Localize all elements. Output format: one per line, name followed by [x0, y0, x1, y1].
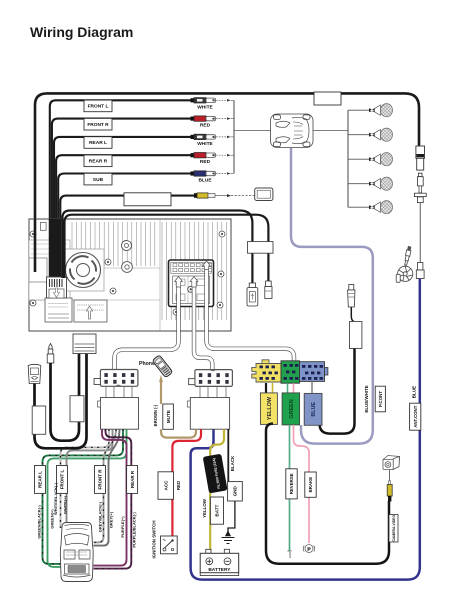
connector main harness socket (head unit rear): [169, 260, 214, 307]
wire bundle inside chassis: [35, 219, 60, 278]
wire gnd to chassis: [228, 501, 235, 533]
car (top view, horizontal): [271, 114, 314, 148]
svg-text:IGNITION SWITCH: IGNITION SWITCH: [152, 520, 157, 558]
node BRAKE: [305, 472, 316, 497]
svg-text:REAR R: REAR R: [89, 159, 108, 165]
speaker 1: [348, 104, 393, 117]
wire antenna lead (black, head unit to antenna jack): [35, 93, 419, 272]
connector AUX 3.5mm jack: [47, 344, 54, 364]
connector wire-bundle socket redraw: [47, 277, 67, 298]
wire stubs cluster to labels: [265, 383, 267, 393]
inline box on antenna lead: [314, 92, 341, 105]
connector 8-pin plug left: [94, 370, 138, 387]
svg-text:PURPLE(+): PURPLE(+): [120, 516, 125, 538]
svg-text:FRONT L: FRONT L: [60, 470, 65, 490]
connector block B (bottom of head unit): [74, 300, 107, 322]
svg-text:P.CONT: P.CONT: [378, 391, 383, 407]
svg-text:ANT.CONT: ANT.CONT: [413, 405, 418, 428]
wire USB cable 1: [62, 211, 252, 284]
wire camera video loop (black): [266, 424, 389, 564]
svg-text:GND: GND: [233, 486, 238, 497]
ferrite bead left: [32, 406, 46, 434]
svg-text:BRAKE: BRAKE: [308, 477, 313, 493]
camera: [383, 456, 400, 470]
wire harness lead to right interface connector (outlined): [194, 285, 212, 370]
connector remote plug: [348, 285, 355, 308]
svg-text:BATTERY: BATTERY: [208, 567, 231, 573]
node P.CONT: [375, 386, 385, 412]
node REVERSE: [286, 469, 297, 499]
connector RCA video plug (yellow): [194, 193, 255, 198]
ground symbol: [222, 532, 235, 544]
node speaker channel labels: [35, 466, 138, 494]
wire PURPLE rear-right pair: [93, 429, 126, 565]
svg-text:WHITE/BLACK(-): WHITE/BLACK(-): [53, 482, 58, 515]
inline adapter on remote lead: [350, 322, 362, 349]
connector antenna plug (male mast top): [414, 173, 426, 262]
svg-text:FRONT R: FRONT R: [98, 469, 103, 490]
speaker 3: [348, 153, 393, 166]
svg-text:REAR R: REAR R: [130, 470, 135, 488]
connector antenna barrel: [416, 263, 424, 279]
node RCA output labels: [84, 100, 171, 206]
svg-text:RED: RED: [176, 481, 181, 490]
wire harness lead to ISO cluster (outlined): [207, 268, 295, 361]
car (top view, vertical): [60, 523, 93, 582]
svg-text:BLUE: BLUE: [411, 386, 416, 399]
connector ISO cluster green section: [281, 361, 300, 383]
antenna motor (round base with spokes): [396, 246, 413, 282]
svg-text:BLUE: BLUE: [311, 402, 317, 417]
svg-text:FRONT R: FRONT R: [87, 122, 109, 128]
svg-text:SUB: SUB: [93, 177, 104, 183]
wire GREEN rear-left pair: [43, 429, 124, 564]
wire GREY front-right pair: [93, 429, 116, 542]
speaker 5: [348, 201, 393, 214]
wire USB cable 2: [65, 215, 269, 281]
svg-text:REVERSE: REVERSE: [289, 473, 294, 494]
wire harness lead to left interface connector (outlined): [115, 285, 179, 370]
wire WHITE front-left pair: [61, 429, 110, 528]
svg-text:MUTE: MUTE: [166, 410, 171, 423]
node GREEN lead box: [282, 393, 300, 425]
wire PINK brake: [294, 425, 310, 543]
svg-text:YELLOW: YELLOW: [267, 396, 273, 420]
node BLUE lead box: [304, 393, 322, 425]
svg-text:BLUE/WHITE: BLUE/WHITE: [364, 385, 369, 412]
connector ISO cluster blue section: [300, 362, 328, 382]
svg-text:FRONT L: FRONT L: [88, 104, 109, 110]
svg-text:CAMERA-VIDEO: CAMERA-VIDEO: [392, 515, 396, 542]
connector ISO cluster yellow section: [252, 360, 281, 382]
svg-text:BLUE: BLUE: [198, 178, 212, 184]
svg-text:WHITE(+): WHITE(+): [63, 495, 68, 514]
ignition switch: [161, 536, 178, 554]
wire speaker bus: [347, 110, 349, 207]
wire BLUE antenna control (navy): [191, 279, 420, 580]
arrows on harness leads: [175, 261, 211, 287]
svg-text:REAR L: REAR L: [38, 471, 43, 488]
interface box left (speaker harness): [98, 386, 139, 429]
ferrite on USB cables: [248, 242, 274, 254]
connector wire-bundle socket on head unit: [47, 277, 67, 298]
speaker 4: [348, 177, 393, 190]
wire P.CONT (blue/white, lavender): [291, 148, 373, 444]
battery: [200, 549, 239, 575]
svg-text:BROWN (-): BROWN (-): [153, 404, 158, 426]
connector camera RCA (yellow): [387, 470, 392, 502]
wire RCA summing bus: [233, 100, 235, 173]
wire GREEN reverse: [289, 425, 291, 551]
svg-text:BLACK: BLACK: [230, 455, 235, 471]
connector block A (bottom of head unit): [45, 298, 72, 322]
connector RCA plugs FRONT L/R REAR L/R SUB: [191, 98, 234, 184]
svg-text:GREEN: GREEN: [289, 399, 295, 418]
svg-text:GREEN/BLACK(-): GREEN/BLACK(-): [37, 505, 42, 539]
svg-text:GND: GND: [288, 552, 292, 558]
connector antenna jack (female): [416, 146, 425, 170]
wire BROWN mute: [160, 382, 162, 405]
svg-text:WHITE: WHITE: [197, 104, 213, 110]
svg-text:ACC: ACC: [163, 480, 168, 491]
fan: [62, 249, 104, 291]
head unit chassis (rear view): [29, 219, 231, 331]
svg-text:P: P: [307, 546, 310, 551]
ferrite bead right: [70, 396, 84, 422]
node BATT: [210, 497, 223, 524]
wire RCA bundle (5 audio + 1 video): [50, 100, 196, 278]
interface box right (power harness): [187, 386, 229, 429]
svg-text:Phone: Phone: [139, 361, 155, 367]
pins ISO cluster: [260, 364, 323, 380]
wire black-stripe overlays: [43, 429, 132, 568]
wire AUX cable loop: [51, 353, 80, 441]
node ANT.CONT: [410, 403, 421, 430]
parking brake symbol: [303, 545, 314, 553]
svg-text:REAR L: REAR L: [89, 140, 107, 146]
wire bus to car: [234, 129, 271, 131]
wire iPod cable loop: [35, 353, 87, 448]
svg-text:GREY/BLACK(-): GREY/BLACK(-): [97, 501, 102, 532]
wire remote lead to blue connector: [320, 349, 355, 434]
wire remote lead upper: [351, 307, 354, 322]
svg-text:YELLOW: YELLOW: [202, 498, 207, 518]
node GND: [228, 482, 243, 501]
svg-text:GREY(+): GREY(+): [108, 511, 113, 528]
connector 8-pin plug right: [189, 370, 233, 387]
wire YELLOW batt: [210, 429, 224, 552]
svg-text:WHITE: WHITE: [197, 141, 213, 147]
connector iPod 30-pin plug: [28, 364, 41, 383]
connector mini plug: [265, 281, 272, 299]
svg-text:BATT: BATT: [215, 504, 220, 516]
svg-text:RED: RED: [200, 123, 211, 129]
fuse (in yellow lead): [203, 454, 228, 494]
iPod adapter module: [73, 334, 96, 354]
chassis details: [40, 222, 132, 272]
speaker 2: [348, 128, 393, 141]
node ACC: [158, 472, 174, 500]
connector USB-A: [247, 283, 258, 306]
svg-text:Wiring Diagram: Wiring Diagram: [30, 24, 133, 40]
wire RED ACC: [172, 429, 201, 536]
wire BLACK ground: [227, 429, 229, 481]
node CAMERA-VIDEO: [389, 515, 398, 543]
node MUTE: [163, 404, 174, 429]
svg-text:RED: RED: [200, 159, 211, 165]
node YELLOW lead box: [260, 393, 277, 425]
wire car to speaker bus: [313, 129, 348, 131]
video adapter box: [255, 188, 273, 201]
svg-text:PURPLE/BLACK(-): PURPLE/BLACK(-): [131, 512, 136, 548]
